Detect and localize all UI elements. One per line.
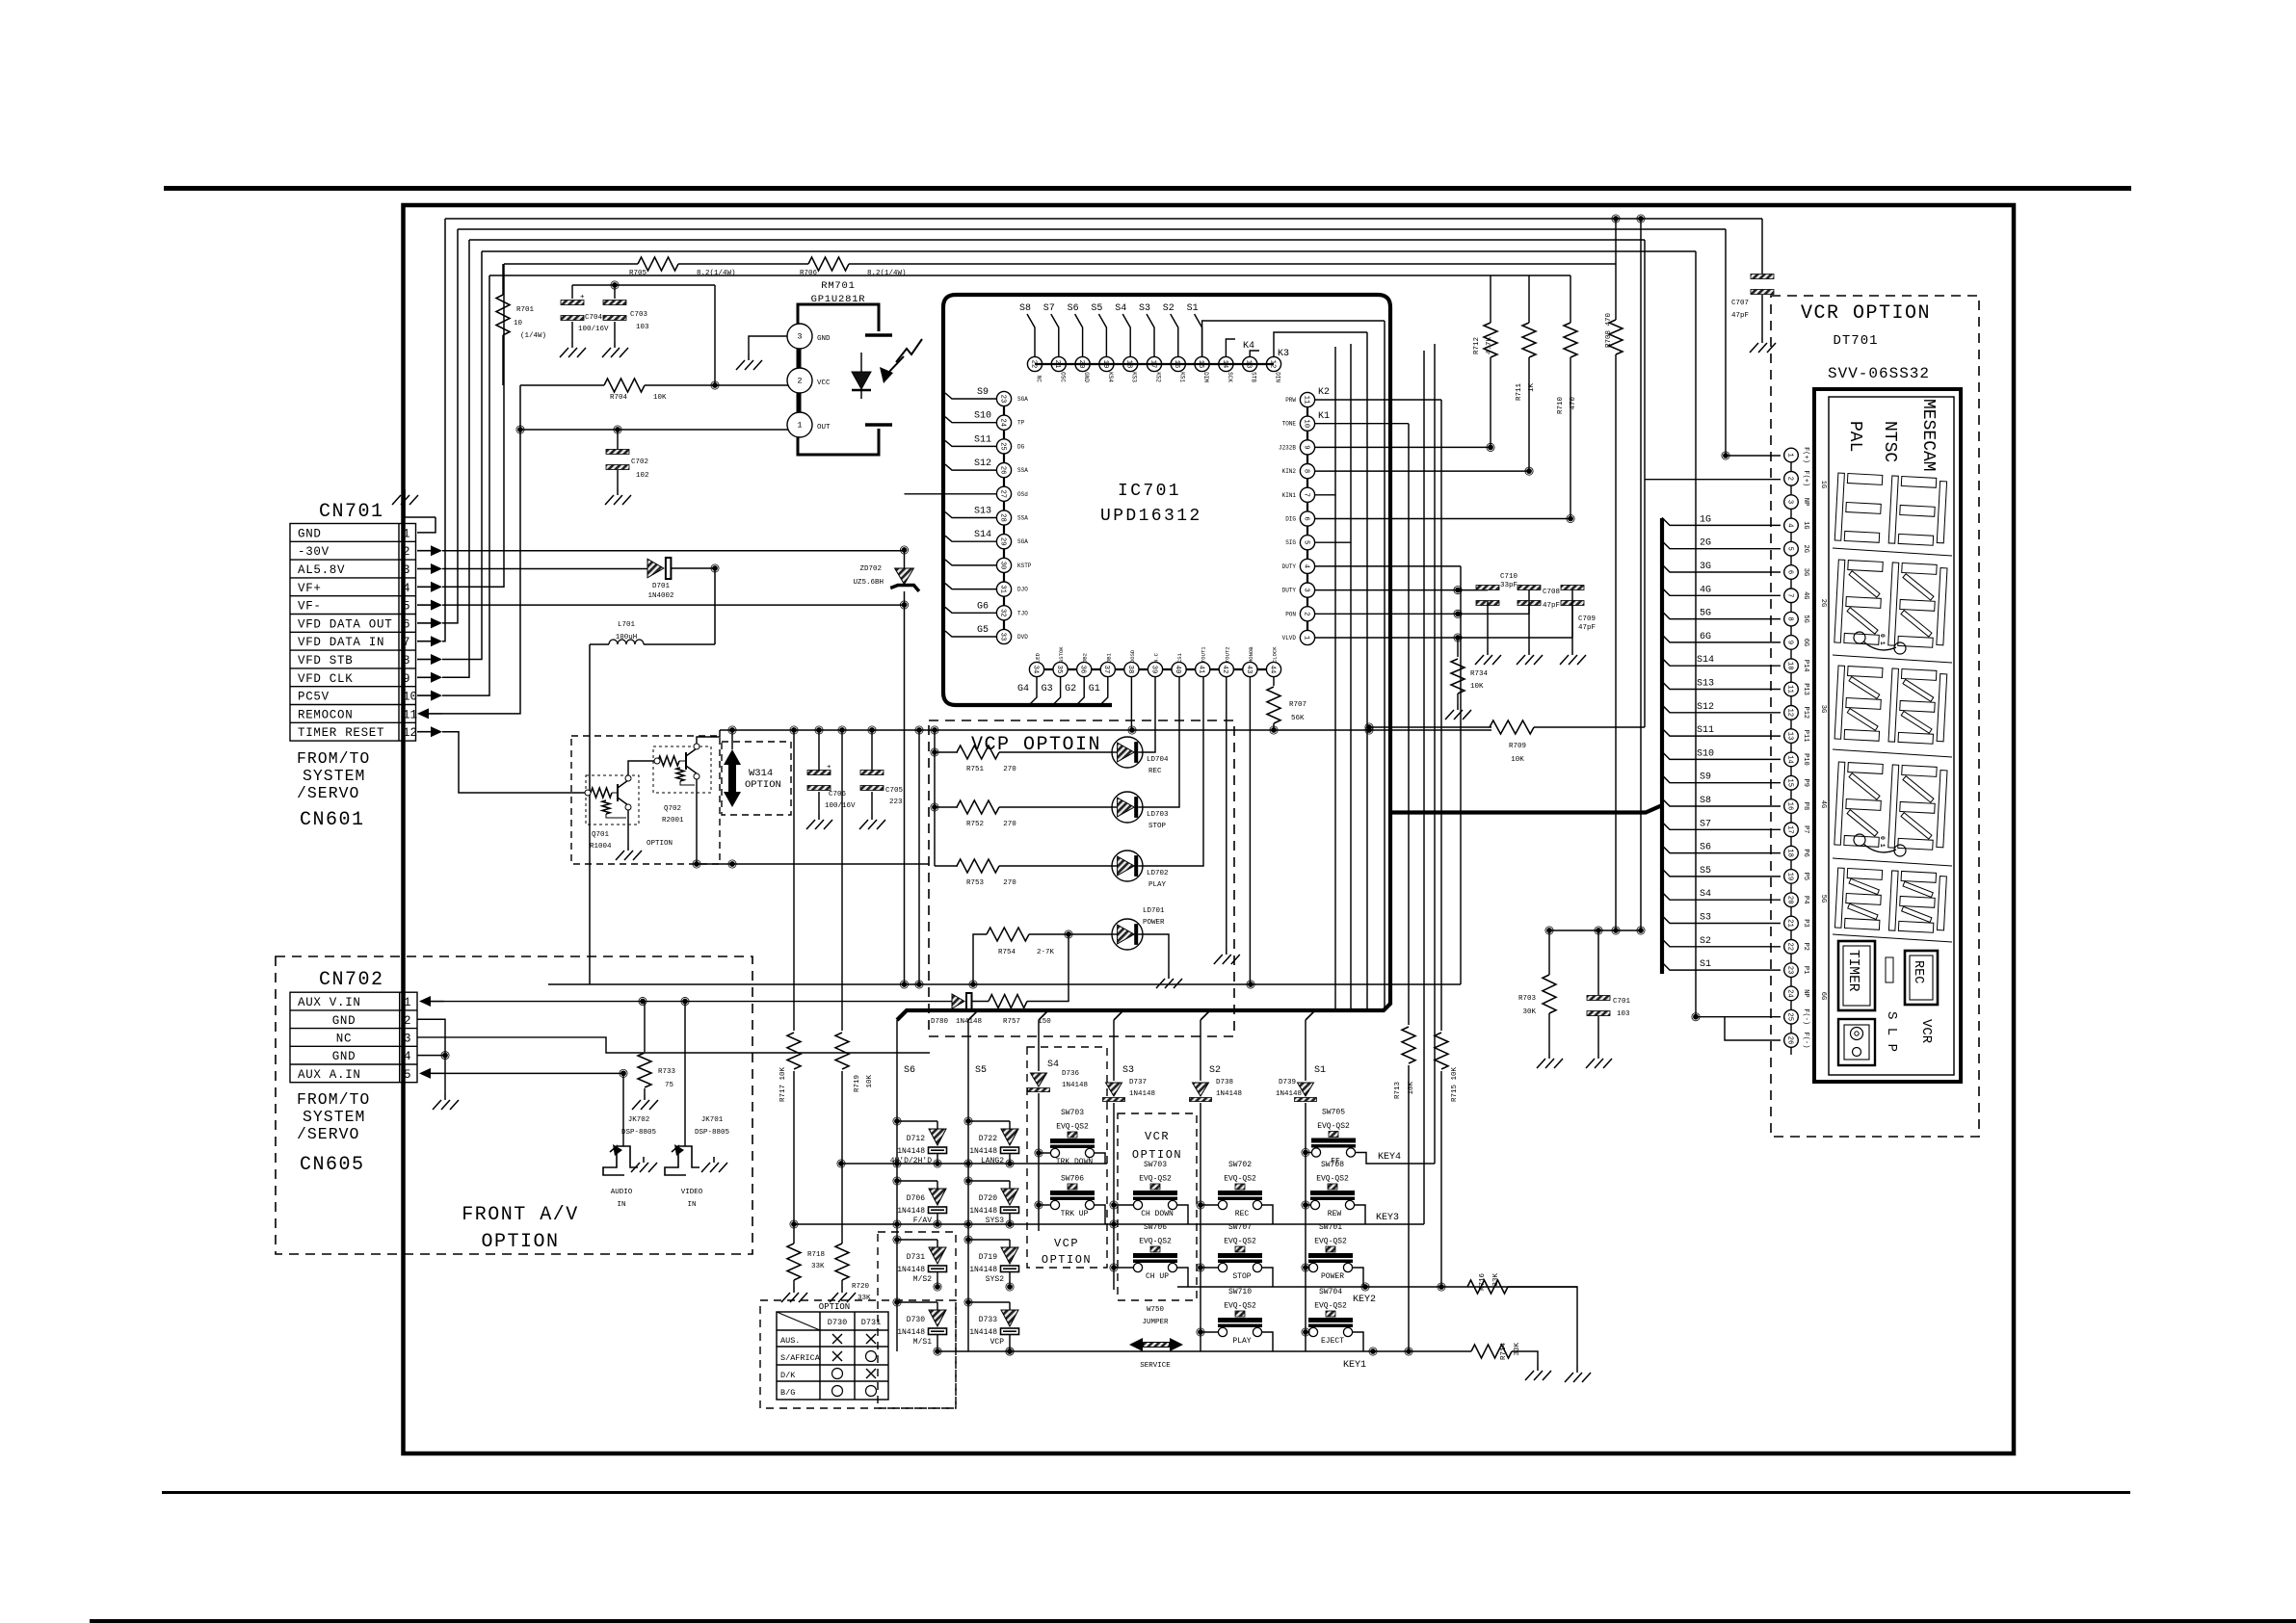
wire VF- <box>442 604 905 606</box>
svg-text:REMOCON: REMOCON <box>298 708 353 721</box>
IC701 pin 27 (left) <box>996 486 1011 501</box>
svg-text:5: 5 <box>403 600 410 614</box>
svg-text:R703: R703 <box>1518 995 1537 1003</box>
display pin 13 P11 <box>1784 729 1799 744</box>
node K4 <box>1226 339 1235 356</box>
wire IC701 pin 25 segment S11 <box>945 440 996 446</box>
wire IC701 pin31 out-left <box>945 584 996 589</box>
wire Q702 emitter down to h897 <box>696 779 698 864</box>
svg-text:47pF: 47pF <box>1543 602 1560 610</box>
top rail 6 (5V) <box>489 275 1570 276</box>
svg-text:3: 3 <box>404 1032 411 1045</box>
svg-text:TRK DOWN: TRK DOWN <box>1056 1158 1094 1166</box>
svg-text:S1: S1 <box>1700 959 1711 970</box>
svg-text:39: 39 <box>1149 666 1157 674</box>
svg-text:30K: 30K <box>1522 1008 1536 1016</box>
svg-text:11: 11 <box>403 708 417 721</box>
transistor Q701 R1004 (digital) <box>586 775 639 825</box>
svg-text:S2: S2 <box>1163 303 1174 314</box>
svg-text:35: 35 <box>1055 666 1063 674</box>
svg-text:SW701: SW701 <box>1319 1223 1342 1232</box>
svg-text:FRONT A/V: FRONT A/V <box>462 1204 579 1226</box>
svg-text:D730: D730 <box>828 1318 847 1327</box>
IC701 pin 31 (left) <box>996 582 1011 596</box>
resistor R711 1K <box>1522 323 1536 357</box>
svg-text:S13: S13 <box>974 507 991 517</box>
svg-text:37: 37 <box>1102 666 1110 674</box>
diode D712 1N4148 4H'D/2H'D <box>894 1118 900 1124</box>
wire IC701 pin 29 segment S14 <box>945 536 996 541</box>
wire display segment 2G <box>1662 541 1781 549</box>
svg-text:P8: P8 <box>1802 802 1809 810</box>
wire zener column down <box>904 605 906 984</box>
svg-text:2: 2 <box>1302 612 1309 615</box>
wire IC701 pin 17 segment S3 <box>1147 314 1154 356</box>
svg-text:SW707: SW707 <box>1228 1223 1252 1232</box>
svg-text:SYSTEM: SYSTEM <box>303 1108 365 1126</box>
svg-text:R719: R719 <box>854 1075 861 1092</box>
resistor R712 4.7K <box>1484 323 1497 357</box>
svg-text:6G: 6G <box>1819 992 1827 1000</box>
svg-text:103: 103 <box>636 324 649 331</box>
svg-text:33pF: 33pF <box>1500 582 1517 589</box>
svg-text:R705: R705 <box>629 270 647 277</box>
diode D719 1N4148 SYS2 <box>965 1237 971 1243</box>
svg-text:42: 42 <box>1221 666 1228 674</box>
svg-text:TRK UP: TRK UP <box>1061 1210 1089 1218</box>
svg-text:R714: R714 <box>1500 1343 1508 1361</box>
wire display segment S6 <box>1662 846 1781 853</box>
svg-text:M/S2: M/S2 <box>913 1275 932 1284</box>
svg-text:C701: C701 <box>1613 998 1631 1006</box>
display pin 14 P10 <box>1784 752 1799 767</box>
svg-text:OPTION: OPTION <box>481 1231 559 1253</box>
svg-text:3: 3 <box>1785 500 1793 504</box>
svg-text:D720: D720 <box>979 1194 997 1203</box>
svg-text:9: 9 <box>1302 445 1309 449</box>
svg-text:R709: R709 <box>1509 743 1526 750</box>
display pin 22 P2 <box>1784 940 1799 955</box>
svg-text:102: 102 <box>636 472 649 480</box>
svg-text:31: 31 <box>998 585 1006 593</box>
display cassette symbol <box>1838 1019 1875 1065</box>
svg-text:CS1: CS1 <box>1176 652 1183 663</box>
display pin 5 2G <box>1784 541 1799 556</box>
IC701 pin 36 (bottom) <box>1077 662 1092 676</box>
svg-text:C709: C709 <box>1578 615 1596 623</box>
svg-text:VFD DATA OUT: VFD DATA OUT <box>298 617 392 631</box>
resistor R706 8.2(1/4W) <box>808 257 849 271</box>
svg-text:DJO: DJO <box>1017 587 1028 593</box>
svg-text:D701: D701 <box>652 583 671 590</box>
svg-text:S4: S4 <box>1047 1060 1059 1070</box>
svg-text:Q702: Q702 <box>664 805 681 813</box>
svg-text:IN: IN <box>617 1201 625 1209</box>
IC701 pin 22 (top) <box>1027 356 1042 371</box>
svg-text:10K: 10K <box>866 1075 874 1088</box>
svg-text:S4: S4 <box>1700 889 1711 900</box>
svg-text:6: 6 <box>1785 570 1793 574</box>
connector CN702 body <box>290 992 417 1083</box>
wire display segment S2 <box>1662 939 1781 947</box>
top rail 2 <box>458 228 1726 230</box>
option table dashed box <box>760 1300 956 1408</box>
svg-text:CN601: CN601 <box>300 809 365 831</box>
wire pin6 row <box>1314 518 1570 520</box>
svg-text:10: 10 <box>1785 662 1793 670</box>
display pin 23 P1 <box>1784 963 1799 978</box>
svg-text:R711: R711 <box>1516 383 1523 402</box>
svg-text:P5: P5 <box>1802 873 1809 880</box>
svg-text:DSP-8805: DSP-8805 <box>621 1129 657 1137</box>
wire IC701 pin 33 segment G5 <box>945 631 996 637</box>
svg-text:REW: REW <box>1328 1210 1342 1218</box>
svg-text:1N4148: 1N4148 <box>969 1147 997 1156</box>
svg-text:40: 40 <box>1174 666 1181 674</box>
resistor R704 10K <box>520 384 604 386</box>
sheet bottom edge rule <box>90 1619 2296 1623</box>
svg-text:103: 103 <box>1617 1010 1630 1018</box>
svg-text:10K: 10K <box>653 394 667 402</box>
svg-text:12: 12 <box>1785 708 1793 717</box>
display pin 19 P5 <box>1784 870 1799 884</box>
svg-text:C707: C707 <box>1731 300 1749 307</box>
svg-text:PLAY: PLAY <box>1148 881 1167 889</box>
svg-text:SW705: SW705 <box>1322 1109 1345 1117</box>
svg-text:0 1: 0 1 <box>1879 634 1886 645</box>
svg-text:24: 24 <box>998 418 1006 427</box>
svg-text:LD701: LD701 <box>1143 907 1165 915</box>
IC U IC701 UPD16312 outline <box>897 295 1390 1020</box>
IC701 pin 37 (bottom) <box>1100 662 1115 676</box>
svg-text:REC: REC <box>1235 1210 1250 1218</box>
svg-text:S1: S1 <box>1314 1065 1326 1076</box>
wire long vertical v1703 <box>1640 219 1642 930</box>
wire pin2 row <box>1314 613 1529 615</box>
svg-text:DSP-8805: DSP-8805 <box>695 1129 730 1137</box>
IC701 pin 1 (right) <box>1300 630 1314 644</box>
KEY4 wire <box>1356 1153 1435 1165</box>
svg-text:S3: S3 <box>1122 1065 1134 1076</box>
CN701 pin 12 arrow (out) <box>417 731 431 733</box>
svg-text:EJECT: EJECT <box>1321 1337 1344 1346</box>
svg-text:47pF: 47pF <box>1578 624 1596 632</box>
RM701 ground lead <box>749 336 787 354</box>
svg-text:GND: GND <box>298 527 322 540</box>
svg-text:SGA: SGA <box>1017 538 1028 545</box>
wire C704/C703 top link <box>572 284 715 286</box>
display colon mark 2G <box>1863 641 1896 650</box>
IC701 pin 11 (right) <box>1300 392 1314 406</box>
IC701 pin 30 (left) <box>996 558 1011 572</box>
svg-text:7: 7 <box>1302 493 1309 497</box>
IC701 pin 20 (top) <box>1075 356 1090 371</box>
wire OUT line <box>519 429 798 431</box>
wire IC701 pin 24 segment S10 <box>945 417 996 423</box>
display digit group 5G <box>1834 868 1946 933</box>
svg-text:28: 28 <box>998 513 1006 522</box>
svg-text:VCR OPTION: VCR OPTION <box>1801 302 1931 325</box>
diode D730 1N4148 M/S1 <box>894 1299 900 1305</box>
resistor R705 8.2(1/4W) <box>638 257 678 271</box>
svg-text:DOSD: DOSD <box>1129 649 1136 663</box>
svg-text:R708 470: R708 470 <box>1605 313 1613 349</box>
connector CN701 body <box>290 524 416 742</box>
wire display segment S14 <box>1662 658 1781 666</box>
svg-text:DIM: DIM <box>1202 372 1209 382</box>
wire AUX A.IN pin5 <box>431 1072 444 1074</box>
svg-text:/SERVO: /SERVO <box>297 784 359 802</box>
svg-text:EVQ-QS2: EVQ-QS2 <box>1139 1175 1172 1184</box>
wire IC701 pin 28 segment S13 <box>945 512 996 518</box>
wire display segment S7 <box>1662 822 1781 829</box>
svg-text:STOP: STOP <box>1232 1272 1251 1281</box>
svg-text:G2: G2 <box>1065 684 1076 694</box>
svg-text:R718: R718 <box>807 1251 825 1259</box>
svg-text:10K: 10K <box>1408 1082 1415 1095</box>
wire pin1 row <box>1314 637 1572 639</box>
CN701 pin 6 arrow (out) <box>417 622 431 624</box>
svg-text:S5: S5 <box>1091 303 1102 314</box>
display pin 12 P12 <box>1784 706 1799 720</box>
wire CN702 GND pin2 <box>417 1019 445 1094</box>
svg-text:25: 25 <box>998 442 1006 451</box>
svg-text:4: 4 <box>403 582 410 595</box>
svg-text:1: 1 <box>1785 453 1793 457</box>
svg-text:100/16V: 100/16V <box>825 802 856 810</box>
wire pin9 row <box>1314 446 1491 448</box>
wire IC701 pin 21 segment S7 <box>1051 314 1059 356</box>
svg-text:ZD702: ZD702 <box>859 565 882 573</box>
svg-text:8: 8 <box>1302 469 1309 473</box>
IC701 pin 4 (right) <box>1300 559 1314 573</box>
svg-text:N.C: N.C <box>1153 652 1160 663</box>
svg-text:R716: R716 <box>1479 1273 1487 1292</box>
svg-text:R2001: R2001 <box>662 817 684 825</box>
display pin 18 P6 <box>1784 846 1799 860</box>
svg-text:F(-): F(-) <box>1802 1008 1809 1025</box>
svg-text:REC: REC <box>1911 960 1925 983</box>
svg-text:15: 15 <box>1785 778 1793 787</box>
wire display segment S4 <box>1662 892 1781 900</box>
svg-text:MESECAM: MESECAM <box>1918 399 1938 472</box>
svg-text:DIN: DIN <box>1275 372 1281 382</box>
svg-text:14: 14 <box>1785 755 1793 764</box>
diode D722 1N4148 LANG2 <box>965 1118 971 1124</box>
display pin 1 F(+) <box>1784 448 1799 462</box>
svg-text:D722: D722 <box>979 1135 997 1143</box>
svg-text:10K: 10K <box>1470 683 1484 691</box>
svg-text:33K: 33K <box>1492 1273 1500 1287</box>
resistor R751 270 <box>935 751 958 753</box>
svg-text:5: 5 <box>1785 547 1793 551</box>
resistor R757 150 <box>989 995 1027 1008</box>
svg-text:PLAY: PLAY <box>1232 1337 1251 1346</box>
svg-text:270: 270 <box>1003 766 1016 773</box>
svg-text:33K: 33K <box>811 1263 825 1270</box>
svg-text:POWER: POWER <box>1321 1272 1344 1281</box>
svg-text:3: 3 <box>1302 588 1309 591</box>
svg-text:SCK: SCK <box>1227 372 1233 382</box>
IC701 pin 6 (right) <box>1300 511 1314 526</box>
svg-text:TP: TP <box>1017 420 1025 427</box>
row wire r4 (KEY1) <box>937 1350 1471 1352</box>
svg-text:FROM/TO: FROM/TO <box>297 749 370 768</box>
svg-text:7: 7 <box>403 636 410 649</box>
svg-text:S12: S12 <box>1697 702 1714 713</box>
row wire r3 (KEY2) <box>1177 1286 1577 1288</box>
svg-text:J232B: J232B <box>1279 444 1296 451</box>
svg-text:8.2(1/4W): 8.2(1/4W) <box>867 270 907 277</box>
wire display segment S13 <box>1662 682 1781 690</box>
svg-text:R753: R753 <box>966 879 985 887</box>
wire display segment 6G <box>1662 635 1781 642</box>
display digit group 3G <box>1834 666 1947 745</box>
svg-text:1: 1 <box>404 996 411 1009</box>
svg-text:CH UP: CH UP <box>1146 1272 1169 1281</box>
capacitor C703 103 <box>614 285 616 299</box>
display pin 25 F(-) <box>1784 1009 1799 1024</box>
svg-text:44: 44 <box>1268 666 1276 674</box>
node K3 <box>1250 351 1259 356</box>
svg-text:10: 10 <box>514 320 523 327</box>
svg-text:F(-): F(-) <box>1802 1033 1809 1049</box>
wire IC701 pin 35 segment G3 <box>1053 677 1061 705</box>
wire -30V <box>442 550 905 552</box>
svg-text:P13: P13 <box>1802 683 1809 695</box>
svg-text:EVQ-QS2: EVQ-QS2 <box>1056 1123 1089 1132</box>
CN701 pin 8 arrow (out) <box>417 659 431 661</box>
svg-text:SW708: SW708 <box>1321 1161 1344 1169</box>
svg-text:6: 6 <box>1302 516 1309 520</box>
svg-text:S6: S6 <box>904 1065 915 1076</box>
svg-text:D731: D731 <box>861 1318 881 1327</box>
svg-text:270: 270 <box>1003 821 1016 828</box>
wire LD703 cathode to pin40 <box>1143 677 1179 807</box>
svg-text:KS4: KS4 <box>1107 372 1114 382</box>
wire pin42 to ground <box>1226 677 1227 949</box>
wire display pin25 feed <box>1696 1016 1781 1018</box>
display pin 26 F(-) <box>1784 1034 1799 1048</box>
IC701 pin 38 (bottom) <box>1124 662 1139 676</box>
switch column S1 with diode D739 <box>1305 1020 1306 1081</box>
svg-text:OPTION: OPTION <box>819 1302 850 1312</box>
outer border box <box>404 205 2015 1453</box>
svg-text:VCP: VCP <box>1054 1237 1079 1250</box>
svg-text:+: + <box>827 764 831 772</box>
svg-text:D737: D737 <box>1129 1079 1147 1086</box>
svg-text:JK702: JK702 <box>628 1116 650 1124</box>
svg-text:W750: W750 <box>1147 1306 1165 1314</box>
wire IC701 pin 34 segment G4 <box>1029 677 1037 705</box>
CN701 pin 5 arrow (out) <box>417 604 431 606</box>
switch column S6 <box>896 1020 898 1351</box>
wire v1402 from pin5 <box>1350 542 1352 1010</box>
svg-text:R720: R720 <box>852 1283 870 1291</box>
wire pin38 to h758 <box>1130 677 1132 730</box>
RM701 detector electrode top <box>865 333 892 336</box>
svg-text:DB2: DB2 <box>1082 653 1089 663</box>
IC701 pin 2 (right) <box>1300 607 1314 621</box>
svg-text:S L P: S L P <box>1884 1011 1899 1052</box>
display pin 3 NP <box>1784 495 1799 510</box>
svg-text:P1: P1 <box>1802 966 1809 974</box>
svg-text:R734: R734 <box>1470 670 1489 678</box>
wire pin8 row <box>1314 470 1529 472</box>
svg-text:S14: S14 <box>974 530 991 540</box>
svg-text:10K: 10K <box>1511 756 1524 764</box>
IC701 pin 34 (bottom) <box>1029 662 1043 676</box>
svg-text:33K: 33K <box>858 1295 871 1302</box>
wire display segment S9 <box>1662 775 1781 783</box>
IC701 pin 33 (left) <box>996 629 1011 643</box>
zener ZD702 UZ5.6BH <box>904 550 906 568</box>
svg-text:K3: K3 <box>1278 349 1289 359</box>
diode D780 1N4148 <box>952 994 964 1008</box>
svg-text:11: 11 <box>1785 685 1793 694</box>
svg-text:AUDIO: AUDIO <box>611 1189 633 1196</box>
svg-text:26: 26 <box>1785 1036 1793 1045</box>
svg-text:P2: P2 <box>1802 943 1809 951</box>
IC701 pin 8 (right) <box>1300 464 1314 479</box>
svg-text:S3: S3 <box>1700 913 1711 924</box>
display pin 11 P13 <box>1784 682 1799 696</box>
svg-text:8.2(1/4W): 8.2(1/4W) <box>697 270 736 277</box>
svg-text:1N4148: 1N4148 <box>969 1266 997 1274</box>
display pin 9 6G <box>1784 636 1799 650</box>
svg-text:1N4148: 1N4148 <box>897 1207 925 1216</box>
pullup column R717/R718 <box>793 730 795 1031</box>
display digit group 4G <box>1834 762 1947 851</box>
svg-text:GND: GND <box>332 1014 356 1028</box>
wire IC701 pin 37 segment G1 <box>1100 677 1108 705</box>
resistor R703 30K <box>1548 930 1550 975</box>
svg-text:2: 2 <box>404 1014 411 1028</box>
display TIMER symbol <box>1838 941 1875 1010</box>
svg-text:NC: NC <box>336 1032 352 1045</box>
svg-text:8: 8 <box>403 654 410 668</box>
svg-text:S2: S2 <box>1700 936 1711 947</box>
svg-text:C710: C710 <box>1500 573 1518 581</box>
wire IC701 pin 22 segment S8 <box>1027 314 1035 356</box>
svg-text:(1/4W): (1/4W) <box>520 332 546 340</box>
svg-text:6: 6 <box>403 617 410 631</box>
RM701 pin 1 OUT <box>787 412 812 437</box>
svg-text:1N4148: 1N4148 <box>969 1328 997 1337</box>
svg-text:DG: DG <box>1017 443 1025 450</box>
wire LD701 cathode to ground <box>1143 934 1169 973</box>
wire AUX V.IN <box>431 1001 444 1003</box>
svg-text:P11: P11 <box>1802 730 1809 743</box>
VCR OPTION dashed box (switches) <box>1118 1113 1197 1300</box>
svg-text:VCP: VCP <box>990 1338 1005 1347</box>
svg-text:23: 23 <box>1785 966 1793 975</box>
svg-text:1N4148: 1N4148 <box>897 1266 925 1274</box>
svg-text:S5: S5 <box>1700 866 1711 877</box>
option block dashed box <box>571 736 720 864</box>
wire display segment 3G <box>1662 564 1781 572</box>
svg-text:S/AFRICA: S/AFRICA <box>780 1353 821 1363</box>
CN701 pin 9 arrow (out) <box>417 676 431 678</box>
svg-text:-30V: -30V <box>298 545 330 559</box>
resistor R753 270 <box>935 865 958 867</box>
wire rail2 drop to display pin1 <box>1726 229 1781 456</box>
wire LED feed column <box>934 730 936 866</box>
wire display segment S10 <box>1662 751 1781 759</box>
svg-text:1N4148: 1N4148 <box>1062 1082 1088 1089</box>
RM701 photodiode arrow <box>896 339 922 362</box>
svg-text:4: 4 <box>1302 564 1309 568</box>
